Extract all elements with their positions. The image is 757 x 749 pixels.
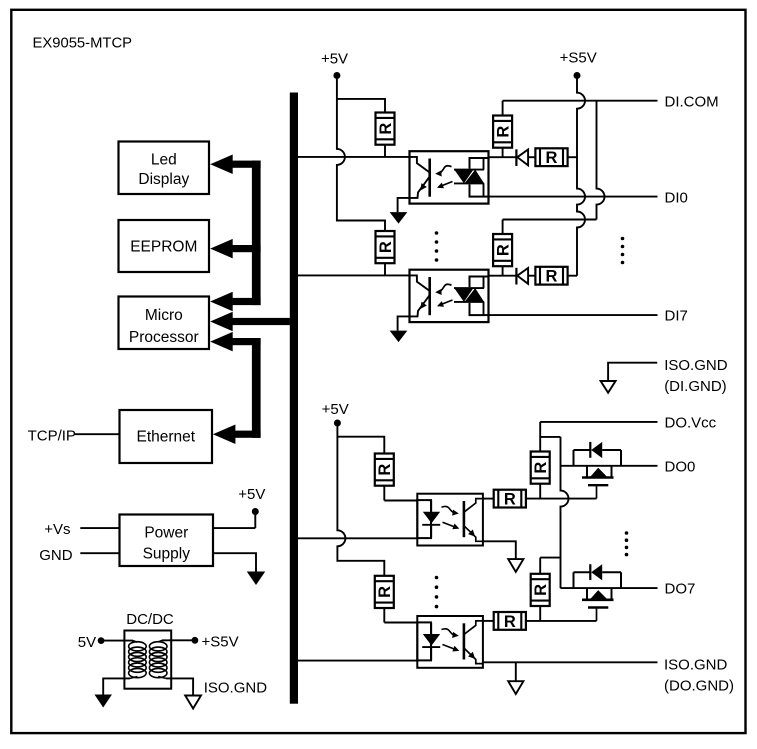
- svg-text:R: R: [532, 584, 550, 596]
- svg-text:+Vs: +Vs: [44, 521, 70, 538]
- svg-text:Ethernet: Ethernet: [136, 428, 195, 445]
- svg-text:Supply: Supply: [143, 546, 191, 563]
- svg-text:DO.Vcc: DO.Vcc: [665, 414, 717, 431]
- svg-text:EX9055-MTCP: EX9055-MTCP: [33, 36, 133, 52]
- svg-text:DI0: DI0: [665, 189, 688, 206]
- svg-text:Power: Power: [144, 525, 188, 542]
- svg-text:R: R: [546, 149, 558, 167]
- svg-text:R: R: [377, 123, 395, 135]
- svg-text:R: R: [376, 464, 394, 476]
- svg-text:R: R: [377, 241, 395, 253]
- svg-text:ISO.GND: ISO.GND: [664, 656, 728, 673]
- svg-text:TCP/IP: TCP/IP: [28, 428, 76, 445]
- svg-text:DI7: DI7: [665, 308, 688, 325]
- svg-text:5V: 5V: [78, 634, 96, 651]
- svg-text:(DI.GND): (DI.GND): [664, 378, 727, 395]
- svg-text:DO0: DO0: [665, 458, 696, 475]
- svg-text:R: R: [546, 268, 558, 286]
- svg-text:Micro: Micro: [145, 307, 183, 324]
- svg-text:R: R: [495, 126, 513, 138]
- svg-text:EEPROM: EEPROM: [130, 238, 197, 255]
- svg-text:+S5V: +S5V: [202, 633, 239, 650]
- svg-text:(DO.GND): (DO.GND): [664, 677, 734, 694]
- svg-text:R: R: [504, 491, 516, 509]
- svg-text:+5V: +5V: [321, 50, 348, 67]
- svg-text:DC/DC: DC/DC: [126, 611, 174, 628]
- svg-text:R: R: [504, 613, 516, 631]
- svg-text:R: R: [532, 462, 550, 474]
- svg-text:R: R: [376, 586, 394, 598]
- svg-text:R: R: [495, 244, 513, 256]
- svg-text:Processor: Processor: [129, 329, 199, 346]
- svg-text:Display: Display: [138, 171, 189, 188]
- svg-text:+S5V: +S5V: [560, 50, 597, 67]
- svg-text:ISO.GND: ISO.GND: [204, 680, 268, 697]
- svg-text:+5V: +5V: [238, 486, 265, 503]
- svg-text:DI.COM: DI.COM: [665, 93, 719, 110]
- svg-text:Led: Led: [151, 152, 177, 169]
- svg-text:DO7: DO7: [665, 581, 696, 598]
- svg-text:GND: GND: [39, 547, 72, 564]
- svg-text:ISO.GND: ISO.GND: [664, 357, 728, 374]
- svg-text:+5V: +5V: [322, 401, 349, 418]
